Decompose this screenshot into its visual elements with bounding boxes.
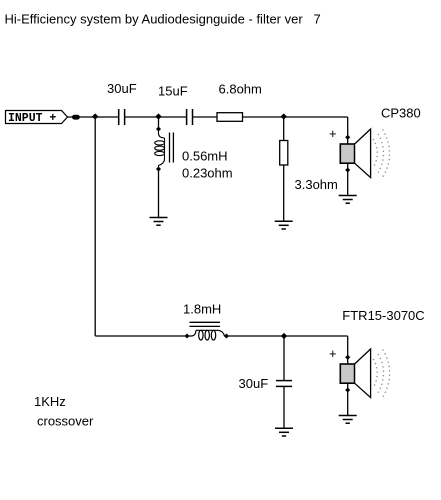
svg-text:CP380: CP380 — [381, 106, 421, 121]
speaker SP2 cone — [355, 349, 371, 398]
svg-text:0.56mH: 0.56mH — [182, 149, 228, 164]
capacitor C2 15uF — [187, 109, 193, 125]
inductor L1 coil — [155, 131, 165, 168]
wire node C down to R2 — [283, 117, 285, 141]
svg-text:+: + — [329, 346, 337, 361]
ground under SP1 — [339, 196, 357, 204]
pin dot L2 left — [184, 333, 189, 338]
svg-text:3.3ohm: 3.3ohm — [295, 177, 338, 192]
pin dot SP2 top — [345, 355, 350, 360]
ground under L1 — [150, 218, 168, 226]
speaker SP1 cone — [355, 129, 371, 178]
svg-text:15uF: 15uF — [158, 84, 188, 99]
speaker SP1 sound waves — [373, 130, 389, 178]
wire L1 to ground — [158, 170, 160, 218]
pin dot L2 right — [224, 333, 229, 338]
wire node D down to C3 — [283, 336, 285, 381]
node C junction — [281, 113, 287, 119]
inductor L2 core lines — [190, 322, 221, 326]
wire R1 to speaker turn — [243, 116, 348, 118]
svg-text:Hi-Efficiency system by Audiod: Hi-Efficiency system by Audiodesignguide… — [5, 12, 321, 27]
speaker SP2 sound waves — [373, 350, 389, 398]
ground under C3 — [275, 428, 293, 436]
node B junction — [155, 113, 161, 119]
svg-text:INPUT +: INPUT + — [8, 112, 56, 125]
svg-text:1KHz: 1KHz — [34, 394, 66, 409]
wire C3 to ground — [283, 386, 285, 428]
wire C2 to R1 — [193, 116, 218, 118]
terminal oval — [72, 115, 80, 120]
svg-text:0.23ohm: 0.23ohm — [182, 166, 233, 181]
svg-text:6.8ohm: 6.8ohm — [219, 82, 262, 97]
ground under SP2 — [339, 416, 357, 424]
inductor L2 coil — [189, 330, 227, 340]
wire node A down to low branch — [94, 117, 96, 337]
svg-text:+: + — [329, 126, 337, 141]
pin dot SP2 bottom — [345, 387, 350, 392]
wire low rail left — [95, 335, 187, 337]
ground under R2 — [275, 221, 293, 229]
node A junction — [92, 113, 98, 119]
node D junction — [281, 333, 287, 339]
wire input to C1 — [68, 116, 119, 118]
pin dot L1 top — [156, 126, 161, 131]
svg-text:30uF: 30uF — [239, 376, 269, 391]
capacitor C3 30uF — [276, 381, 292, 387]
input flag INPUT + — [6, 111, 68, 126]
svg-text:30uF: 30uF — [107, 81, 137, 96]
pin dot SP1 bottom — [345, 167, 350, 172]
wire down to speaker SP2 — [347, 336, 349, 416]
wire down to speaker SP1 — [347, 117, 349, 196]
svg-text:crossover: crossover — [37, 414, 94, 429]
inductor L1 core lines — [170, 133, 174, 163]
wire R2 to ground — [283, 165, 285, 221]
wire node B down to inductor — [158, 117, 160, 129]
wire C1 to C2 — [125, 116, 187, 118]
speaker SP1 magnet — [340, 144, 354, 163]
wire L2 to speaker turn — [227, 335, 348, 337]
svg-text:1.8mH: 1.8mH — [183, 302, 221, 317]
resistor R2 3.3ohm — [280, 141, 288, 166]
capacitor C1 30uF — [119, 109, 125, 125]
resistor R1 6.8ohm — [217, 113, 243, 122]
pin dot L1 bottom — [156, 166, 161, 171]
speaker SP2 magnet — [340, 364, 354, 383]
svg-text:FTR15-3070C: FTR15-3070C — [342, 308, 424, 323]
pin dot SP1 top — [345, 135, 350, 140]
